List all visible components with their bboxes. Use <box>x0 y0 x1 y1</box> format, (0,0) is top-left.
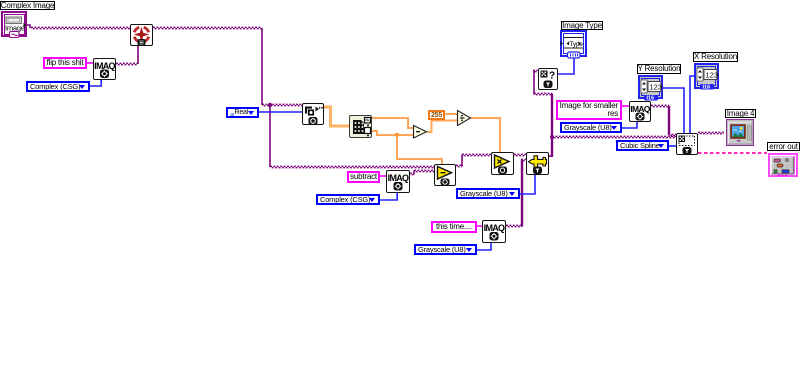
junction dot orange <box>395 133 399 137</box>
wire image: IMAQ create2 out <box>410 173 414 174</box>
wire image vertical branch x270 <box>269 105 271 167</box>
indicator Image Type <box>560 30 587 57</box>
string constant flip this shit <box>43 57 87 69</box>
wire blue: Complex CSG2 to IMAQ2 <box>380 193 397 200</box>
wire blue: getinfo to Image Type <box>558 57 574 74</box>
wire orange: 255 to divide <box>445 113 457 115</box>
wire blue: Complex CSG to IMAQ1 <box>90 80 101 86</box>
label Y Resolution <box>637 64 681 74</box>
node complex plane to image <box>302 103 324 125</box>
node IMAQ Create 2 <box>386 170 410 193</box>
enum constant Complex (CSG) 2 <box>316 194 380 205</box>
wire image: into getinfo node <box>533 70 538 71</box>
wire blue: Cubic Spline to resample <box>669 145 676 147</box>
divide function triangle <box>458 111 471 126</box>
X Resolution control internals <box>697 68 719 91</box>
wire blue: Real to conversion <box>259 111 302 113</box>
wire image vertical to FFT bottom <box>137 46 139 64</box>
enum constant Grayscale (U8) 2 <box>414 244 477 255</box>
wire blue: X Resolution to resample <box>690 76 694 133</box>
label Image Type <box>561 21 603 30</box>
control Y Resolution <box>638 75 663 99</box>
numeric constant 255 <box>428 110 445 120</box>
wire orange: max out <box>372 118 413 128</box>
junction dot image wire <box>268 103 272 107</box>
wire string: image for smaller res to IMAQ4 <box>622 105 629 107</box>
label Complex Image <box>0 1 55 10</box>
subtract function triangle <box>414 126 427 139</box>
string constant Image for smaller res <box>556 100 622 120</box>
IMAQ create gear glyphs (nodes 1-4) <box>100 70 645 241</box>
wire string: this time to IMAQ3 <box>476 225 482 227</box>
wire image: FFT out <box>153 27 262 28</box>
string constant subtract <box>347 171 380 183</box>
wire blue: Grayscale1 to cast <box>520 175 535 194</box>
label X Resolution <box>693 52 738 62</box>
wire blue: Grayscale3 to IMAQ4 <box>622 122 637 128</box>
node IMAQ multiply <box>491 152 514 175</box>
node IMAQ FFT (red cross) <box>130 24 153 46</box>
IMAQ FFT red cross icon <box>134 27 149 46</box>
wire orange: min out <box>372 131 413 135</box>
node IMAQ Create 4 <box>629 101 651 122</box>
wire orange: divide out to multiply <box>471 118 500 152</box>
wire image: into multiply node <box>462 154 491 155</box>
node IMAQ get image info <box>538 68 558 90</box>
wire image: IMAQ create4 out <box>651 105 669 106</box>
wire error cluster wire to error out <box>698 152 767 154</box>
wire image: cast branch to resample <box>552 136 676 137</box>
wire blue: Y Resolution to resample <box>663 88 684 133</box>
string constant this time.... <box>431 221 477 233</box>
wire image: cast out stub <box>549 155 552 157</box>
enum constant Complex (CSG) 1 <box>26 81 90 92</box>
wire orange: subtract result to divide <box>427 121 457 133</box>
wire image: top jog <box>534 93 552 94</box>
Image Type indicator internals <box>561 38 584 59</box>
wire blue: Grayscale2 to IMAQ3 <box>477 243 491 250</box>
indicator Image 4 <box>726 119 754 146</box>
control Complex Image (image control) <box>1 11 27 37</box>
wire image: into subtract node <box>414 170 434 171</box>
error out indicator internals <box>772 157 794 176</box>
wire string: flip this shit to IMAQ1 <box>87 62 93 64</box>
wire image: branch to IMAQ subtract node <box>270 166 434 167</box>
IMAQ get image info internals <box>541 71 556 89</box>
label error out <box>767 142 800 151</box>
enum constant Grayscale (U8) 3 <box>560 122 622 133</box>
node IMAQ cast image <box>526 152 549 175</box>
IMAQ subtract node internals (yellow triangle) <box>438 167 452 186</box>
complex-to-real conversion node internals <box>305 107 324 126</box>
IMAQ cast node internals (yellow plane) <box>529 156 547 174</box>
wire image: into resample dst <box>668 134 676 135</box>
array max&min node internals <box>353 118 371 137</box>
wire image out of Complex Image control <box>27 25 30 28</box>
Complex Image control internals <box>5 17 27 38</box>
wire image: into cast dst <box>521 159 526 160</box>
node IMAQ subtract <box>434 164 456 186</box>
arrowhead into error out <box>769 163 772 168</box>
wire image vertical x534 <box>533 71 535 95</box>
enum constant Real <box>226 107 259 118</box>
wire image: multiply out to cast <box>514 154 526 155</box>
indicator error out <box>768 153 798 177</box>
junction dot cast branch <box>550 135 554 139</box>
wire image: resample out to Image4 <box>698 132 724 133</box>
wire image vertical x462 <box>461 155 463 167</box>
label Image 4 <box>725 109 756 118</box>
wire image vertical x262 <box>261 28 263 105</box>
IMAQ resample internals <box>679 136 695 155</box>
enum constant Cubic Spline <box>616 140 669 151</box>
node array max min <box>349 115 372 138</box>
node IMAQ Create 1 <box>93 58 116 80</box>
wire image: to conversion node <box>262 104 302 105</box>
Y Resolution control internals <box>641 80 663 102</box>
wire string: subtract to IMAQ2 <box>380 175 386 177</box>
wire orange: branch down to IMAQ subtract <box>397 135 442 164</box>
wire image vertical x522 thick <box>521 160 523 227</box>
wire image: IMAQ create1 out <box>116 63 138 64</box>
wire image: subtract node out <box>456 165 462 166</box>
node IMAQ Create 3 <box>482 220 506 243</box>
IMAQ multiply node internals (yellow triangle) <box>495 155 510 174</box>
control X Resolution <box>694 63 719 89</box>
enum constant Grayscale (U8) 1 <box>456 188 520 199</box>
Image 4 indicator internals <box>728 122 752 145</box>
wire image: IMAQ create3 out <box>506 225 522 226</box>
wire image: control to FFT node <box>31 27 130 28</box>
wire orange array: conversion to maxmin <box>324 107 349 126</box>
arrowhead into Image 4 <box>727 130 731 136</box>
wire image vertical x669 thick <box>668 106 670 135</box>
node IMAQ resample <box>676 133 698 155</box>
wire image vertical x552 thick <box>551 94 553 158</box>
wire image jog <box>413 171 415 175</box>
